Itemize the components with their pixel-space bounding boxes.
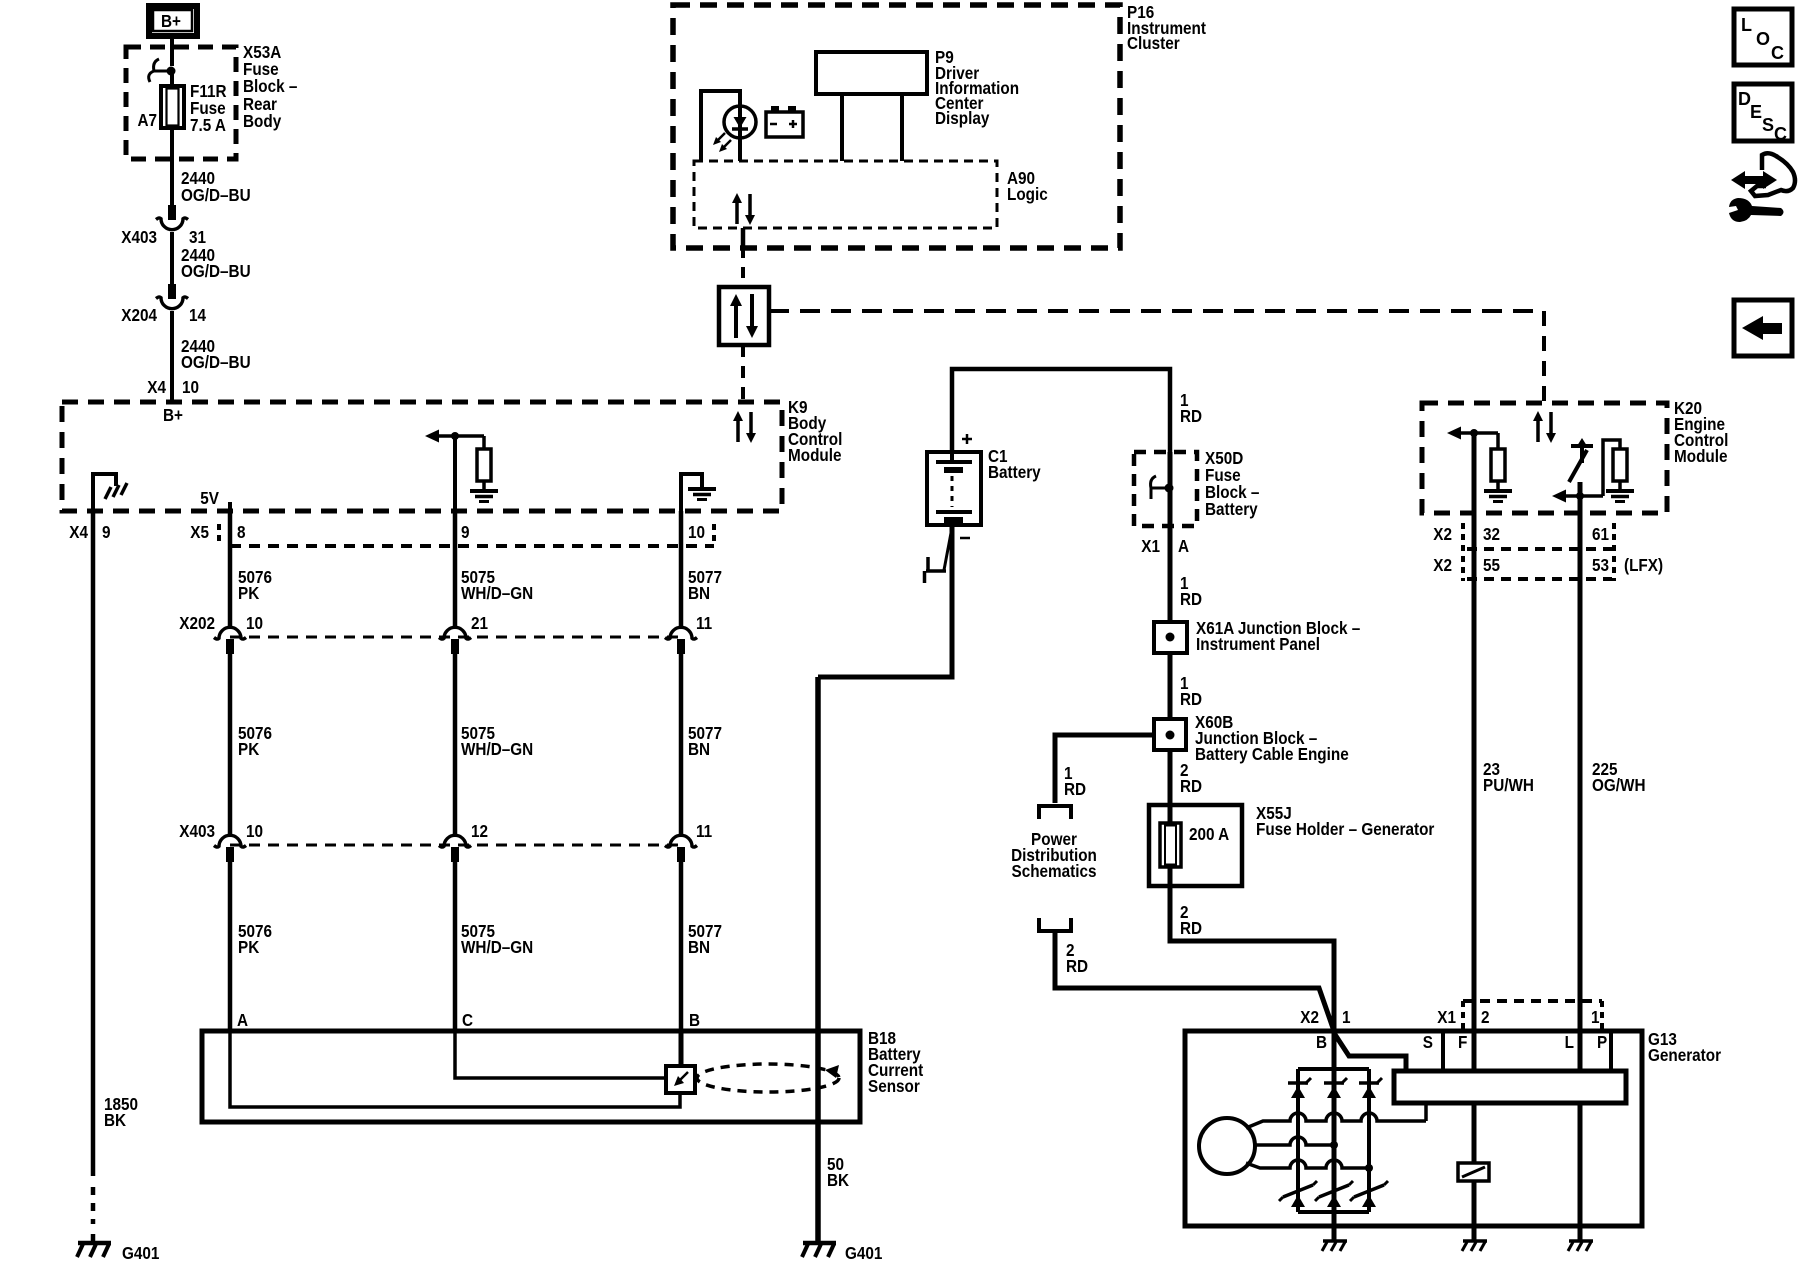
svg-text:S: S xyxy=(1423,1032,1433,1052)
svg-text:RD: RD xyxy=(1180,589,1202,609)
serial data stub below A90 xyxy=(741,228,746,247)
svg-text:PK: PK xyxy=(238,937,259,957)
svg-text:1: 1 xyxy=(1342,1007,1351,1027)
svg-text:P: P xyxy=(1597,1032,1607,1052)
serial data arrows inside A90 xyxy=(732,193,755,225)
svg-text:L: L xyxy=(1565,1032,1574,1052)
svg-text:14: 14 xyxy=(189,305,207,325)
wire from power distribution to generator xyxy=(1055,931,1334,1031)
clip terminal in X53A xyxy=(149,59,176,82)
K20 field monitor switch and resistor (pin 61) xyxy=(1552,438,1627,513)
signal wire 5075 WH/D-GN (seg 1) xyxy=(453,511,458,626)
svg-text:A7: A7 xyxy=(137,110,157,130)
svg-text:OG/D–BU: OG/D–BU xyxy=(181,185,251,205)
svg-text:X5: X5 xyxy=(190,522,209,542)
diode D1 (positive, phase 1) xyxy=(1288,1078,1311,1098)
F wire into regulator xyxy=(1472,1031,1477,1071)
wire X403 to X204 xyxy=(170,232,174,284)
svg-text:B: B xyxy=(689,1010,700,1030)
svg-text:5V: 5V xyxy=(200,488,219,508)
inline connector X204 pin 14 xyxy=(156,284,188,309)
K9 internal ground (pin 10) xyxy=(679,472,702,511)
P9 display box xyxy=(816,52,927,94)
X60B junction block xyxy=(1154,719,1186,750)
B18 internal wire from pin A xyxy=(230,1031,680,1107)
svg-text:WH/D–GN: WH/D–GN xyxy=(461,583,533,603)
svg-text:10: 10 xyxy=(246,821,263,841)
svg-text:(LFX): (LFX) xyxy=(1624,555,1663,575)
X50D Fuse Block Battery dashed box xyxy=(1134,452,1197,526)
svg-text:RD: RD xyxy=(1066,956,1088,976)
connector X1 bracket above generator xyxy=(1463,999,1602,1003)
svg-text:10: 10 xyxy=(688,522,705,542)
X61A junction block xyxy=(1154,622,1187,653)
K9 internal pull-up with resistor to ground (pin 9) xyxy=(425,430,491,512)
svg-text:BK: BK xyxy=(104,1110,126,1130)
svg-text:10: 10 xyxy=(246,613,263,633)
hall sensor element box xyxy=(666,1066,695,1093)
rectifier leg 2 / B center leg xyxy=(1332,1031,1337,1240)
svg-text:32: 32 xyxy=(1483,524,1500,544)
wire L to ground xyxy=(1578,1103,1583,1240)
wire 5075 WH/D-GN (seg 2) xyxy=(453,653,458,834)
svg-text:11: 11 xyxy=(696,613,712,633)
rectifier top rail xyxy=(1298,1067,1369,1071)
svg-text:A: A xyxy=(1178,536,1189,556)
svg-text:X2: X2 xyxy=(1433,555,1452,575)
branch wire to power distribution xyxy=(1055,735,1154,803)
svg-text:C: C xyxy=(1774,124,1787,144)
svg-text:PK: PK xyxy=(238,739,259,759)
svg-text:X4: X4 xyxy=(147,377,166,397)
diode D2 (positive, phase 2) xyxy=(1324,1078,1347,1098)
P pin stub xyxy=(1609,1031,1613,1071)
G13 Generator box xyxy=(1185,1031,1642,1226)
svg-text:OG/D–BU: OG/D–BU xyxy=(181,352,251,372)
svg-text:12: 12 xyxy=(471,821,488,841)
svg-text:G401: G401 xyxy=(122,1243,159,1263)
fuse 200 A xyxy=(1160,805,1181,867)
serial data arrows inside K20 xyxy=(1533,411,1556,443)
wire X204 to K9 xyxy=(170,311,174,404)
svg-text:Module: Module xyxy=(788,445,841,465)
svg-text:S: S xyxy=(1762,115,1774,135)
ground (lamp circuit) xyxy=(1568,1241,1593,1251)
svg-text:C: C xyxy=(1771,43,1784,63)
diode D6 (negative, phase 3) xyxy=(1350,1181,1388,1207)
svg-text:9: 9 xyxy=(461,522,470,542)
svg-text:7.5 A: 7.5 A xyxy=(190,115,226,135)
svg-text:X2: X2 xyxy=(1300,1007,1319,1027)
battery C1 box xyxy=(927,452,981,525)
F field wire below regulator xyxy=(1472,1103,1477,1163)
connector X403 terminal 12 xyxy=(439,835,471,862)
ground (K9 internal, pin 9 circuit) xyxy=(470,491,498,502)
svg-text:RD: RD xyxy=(1180,406,1202,426)
wire 23 PU/WH to generator F xyxy=(1472,513,1477,1031)
ground (field circuit) xyxy=(1462,1241,1487,1251)
svg-text:BN: BN xyxy=(688,583,710,603)
svg-text:L: L xyxy=(1741,15,1752,35)
X55J fuse holder box xyxy=(1149,805,1242,886)
diode D5 (negative, phase 2) xyxy=(1315,1181,1353,1207)
svg-text:Battery Cable Engine: Battery Cable Engine xyxy=(1195,744,1349,764)
svg-text:Instrument Panel: Instrument Panel xyxy=(1196,634,1320,654)
serial data dashed bus to K20 xyxy=(769,309,1544,313)
off-page connector (down) xyxy=(1039,806,1071,819)
A90 Logic dashed box xyxy=(694,161,997,228)
stator phase 3 xyxy=(1246,1160,1369,1168)
svg-text:Sensor: Sensor xyxy=(868,1076,920,1096)
sensor supply wire 5076 PK (seg 1) xyxy=(228,511,233,626)
diode D4 (negative, phase 1) xyxy=(1279,1181,1317,1207)
B output jumper to regulator xyxy=(1334,1033,1406,1071)
svg-text:B: B xyxy=(1316,1032,1327,1052)
regulator sense tap to stator xyxy=(1424,1103,1428,1121)
svg-text:X1: X1 xyxy=(1437,1007,1456,1027)
icon: description box DESC xyxy=(1734,84,1792,144)
svg-text:PK: PK xyxy=(238,583,259,603)
battery telltale icon xyxy=(766,106,803,137)
svg-text:Body: Body xyxy=(243,111,282,131)
wire 225 OG/WH to generator L xyxy=(1578,513,1583,1031)
svg-text:BN: BN xyxy=(688,739,710,759)
svg-text:8: 8 xyxy=(237,522,246,542)
svg-text:10: 10 xyxy=(182,377,199,397)
svg-text:X2: X2 xyxy=(1433,524,1452,544)
svg-text:B+: B+ xyxy=(163,405,183,425)
svg-text:E: E xyxy=(1750,102,1762,122)
minus sign xyxy=(960,537,970,540)
X5 connector dashed row xyxy=(230,544,714,548)
svg-text:B+: B+ xyxy=(161,11,181,31)
svg-text:BK: BK xyxy=(827,1170,849,1190)
svg-text:Fuse Holder – Generator: Fuse Holder – Generator xyxy=(1256,819,1435,839)
svg-text:9: 9 xyxy=(102,522,111,542)
field winding box xyxy=(1458,1163,1489,1181)
wire B+ to fuse block xyxy=(170,36,174,66)
serial data dashed wire to connector xyxy=(741,247,745,287)
svg-text:PU/WH: PU/WH xyxy=(1483,775,1534,795)
K20 Engine Control Module dashed box xyxy=(1422,403,1667,513)
charge indicator loop wire xyxy=(701,91,740,161)
ground G401 (center) xyxy=(802,1243,836,1257)
plus sign xyxy=(962,434,972,444)
K9 internal chassis ground (pin X4-9) xyxy=(91,472,127,511)
L wire into regulator xyxy=(1578,1031,1583,1071)
wire X60B to X55J xyxy=(1168,750,1173,805)
P9 leg right xyxy=(900,94,904,161)
main feed wire through X50D xyxy=(1168,452,1173,622)
clip terminal in X50D xyxy=(1151,476,1174,499)
svg-text:1: 1 xyxy=(1591,1007,1600,1027)
svg-text:55: 55 xyxy=(1483,555,1500,575)
wire 5075 WH/D-GN (seg 3) xyxy=(453,861,458,1031)
wire X61A to X60B xyxy=(1168,653,1173,719)
wire X55J to generator B xyxy=(1170,867,1334,1031)
svg-text:Cluster: Cluster xyxy=(1127,33,1180,53)
svg-text:X202: X202 xyxy=(179,613,215,633)
battery negative cable through sensor xyxy=(815,677,821,1241)
wire 5077 BN (seg 3) xyxy=(679,861,684,1031)
ground (rectifier) xyxy=(1322,1241,1347,1251)
svg-text:C: C xyxy=(462,1010,473,1030)
P16 Instrument Cluster dashed box xyxy=(673,5,1120,248)
battery negative cable xyxy=(818,525,952,677)
svg-text:Logic: Logic xyxy=(1007,184,1048,204)
low ref wire 5077 BN (seg 1) xyxy=(679,511,684,626)
off-page connector (up) xyxy=(1039,918,1071,931)
svg-text:F: F xyxy=(1458,1032,1467,1052)
svg-text:Schematics: Schematics xyxy=(1012,861,1097,881)
B18 Battery Current Sensor box xyxy=(202,1031,860,1122)
sensor arrow xyxy=(680,1072,688,1080)
svg-text:X403: X403 xyxy=(179,821,215,841)
serial data connector box with arrows xyxy=(719,287,769,345)
svg-text:G401: G401 xyxy=(845,1243,882,1263)
svg-text:OG/D–BU: OG/D–BU xyxy=(181,261,251,281)
charge indicator telltale lamp xyxy=(724,106,756,138)
svg-text:BN: BN xyxy=(688,937,710,957)
svg-text:11: 11 xyxy=(696,821,712,841)
sensed-cable dashed ellipse xyxy=(697,1064,839,1092)
ground (K20 internal, pin 32 circuit) xyxy=(1484,491,1512,502)
battery positive wire xyxy=(952,369,1170,452)
svg-text:200 A: 200 A xyxy=(1189,824,1229,844)
svg-text:2: 2 xyxy=(1481,1007,1490,1027)
B+ power symbol box xyxy=(149,6,197,36)
rectifier bottom rail xyxy=(1298,1210,1369,1214)
ground (K20 internal, pin 61 circuit) xyxy=(1606,491,1634,502)
K20 generator-turn-on driver (pin 32) xyxy=(1447,427,1505,514)
svg-text:WH/D–GN: WH/D–GN xyxy=(461,937,533,957)
serial data arrows inside K9 xyxy=(733,411,756,443)
wire fuse to X403 xyxy=(170,128,174,205)
connector X403 terminal 10 xyxy=(214,835,246,862)
ground wire 1850 BK from K9 X4-9 xyxy=(91,511,96,1176)
svg-text:Generator: Generator xyxy=(1648,1045,1722,1065)
wire F to ground xyxy=(1472,1181,1477,1240)
svg-text:X4: X4 xyxy=(69,522,88,542)
rectifier leg 3 xyxy=(1367,1069,1371,1212)
inline connector X403 pin 31 xyxy=(156,205,188,230)
icon: back arrow box xyxy=(1734,300,1792,356)
B18 internal wire from pin B xyxy=(679,1031,684,1066)
ground (K9 internal, pin 10 circuit) xyxy=(688,489,716,500)
connector X202 terminal 11 xyxy=(665,627,697,654)
svg-text:OG/WH: OG/WH xyxy=(1592,775,1645,795)
connector X403 terminal 11 xyxy=(665,835,697,862)
svg-text:Battery: Battery xyxy=(1205,499,1258,519)
connector X202 terminal 21 xyxy=(439,627,471,654)
B18 internal wire from pin C xyxy=(455,1031,666,1078)
connector X202 terminal 10 xyxy=(214,627,246,654)
stator phase 1 (sense) with hops xyxy=(1246,1113,1426,1128)
P9 leg left xyxy=(840,94,844,161)
stator winding circle xyxy=(1199,1118,1255,1174)
svg-text:RD: RD xyxy=(1180,918,1202,938)
wire 5076 PK (seg 2) xyxy=(228,653,233,834)
stator phase 2 xyxy=(1255,1137,1334,1145)
wire 5076 PK (seg 3) xyxy=(228,861,233,1031)
svg-text:RD: RD xyxy=(1180,689,1202,709)
serial data dashed wire box to K9 xyxy=(741,345,745,402)
fuse block X53A dashed box xyxy=(126,47,236,159)
icon: repair info (arrow, hand, wrench) xyxy=(1729,153,1795,222)
wire 5077 BN (seg 2) xyxy=(679,653,684,834)
battery clamp symbol xyxy=(925,533,952,583)
svg-text:Display: Display xyxy=(935,108,990,128)
svg-text:WH/D–GN: WH/D–GN xyxy=(461,739,533,759)
svg-text:53: 53 xyxy=(1592,555,1609,575)
connector X202 row xyxy=(230,636,681,639)
ground G401 (left) xyxy=(77,1243,111,1257)
svg-text:RD: RD xyxy=(1064,779,1086,799)
K9 internal 5V stub (pin X5-8) xyxy=(228,502,232,511)
K9 Body Control Module dashed box xyxy=(62,402,782,511)
svg-text:Module: Module xyxy=(1674,446,1727,466)
fuse F11R 7.5A xyxy=(161,86,184,128)
svg-text:61: 61 xyxy=(1592,524,1609,544)
svg-text:X403: X403 xyxy=(121,227,157,247)
voltage regulator bar xyxy=(1394,1071,1626,1103)
svg-text:X204: X204 xyxy=(121,305,157,325)
icon: location box LOC xyxy=(1734,9,1792,65)
svg-text:RD: RD xyxy=(1180,776,1202,796)
rectifier leg 1 xyxy=(1296,1069,1300,1212)
lamp emission arrows xyxy=(713,133,731,152)
wire clip to fuse xyxy=(170,71,174,87)
S pin stub xyxy=(1441,1031,1445,1071)
svg-text:21: 21 xyxy=(471,613,488,633)
svg-text:A: A xyxy=(237,1010,248,1030)
connector X403 row xyxy=(230,844,681,847)
svg-text:X1: X1 xyxy=(1141,536,1160,556)
svg-text:Battery: Battery xyxy=(988,462,1041,482)
battery cell symbol xyxy=(936,452,972,532)
diode D3 (positive, phase 3) xyxy=(1359,1078,1382,1098)
svg-text:O: O xyxy=(1756,29,1770,49)
